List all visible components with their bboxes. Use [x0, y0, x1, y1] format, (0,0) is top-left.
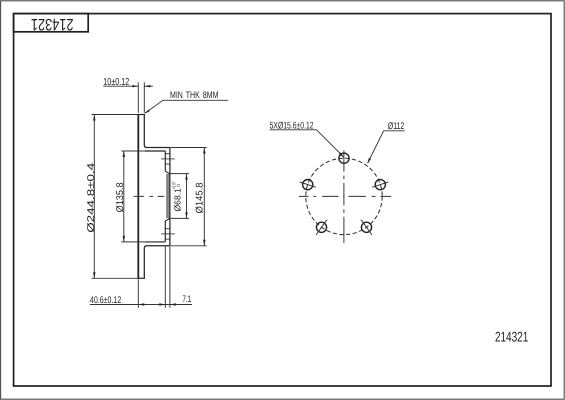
section view horizontal centerline	[134, 195, 165, 197]
svg-text:Ø68.1: Ø68.1	[173, 188, 183, 212]
dimension Ø135.8 extension lines	[121, 151, 145, 242]
flange inner face top segment	[164, 151, 166, 171]
title block box	[14, 14, 89, 32]
disc left face (outboard friction face, thick)	[137, 115, 139, 279]
svg-text:Ø145.8: Ø145.8	[195, 182, 206, 214]
bolt circle (dashed)	[306, 158, 382, 234]
leader 5XØ15.6±0.12 underline and diagonal	[270, 130, 344, 157]
hat inner surface bottom	[145, 241, 165, 243]
dimension Ø68.1 extension lines	[169, 174, 189, 219]
dimension text Ø135.8 (rotated)	[115, 182, 126, 213]
dimension Ø145.8 extension lines	[171, 148, 207, 246]
disc right face lower with fillet into hat outer surface	[144, 246, 170, 278]
dimension 10±0.12 dimension line	[103, 85, 153, 87]
bolt hole section top edge lines	[165, 154, 171, 164]
dimension 40.6 / 7.1 dimension line	[90, 304, 192, 306]
face view horizontal centerline	[299, 195, 391, 197]
svg-text:214321: 214321	[31, 15, 73, 33]
bolt hole upper left	[303, 180, 313, 190]
dimension text Ø145.8 (rotated)	[195, 182, 206, 214]
bolt hole upper left radial tick	[300, 182, 316, 187]
bolt hole section top centerline tick	[161, 158, 175, 160]
disc top face	[137, 114, 145, 116]
svg-text:5XØ15.6±0.12: 5XØ15.6±0.12	[270, 120, 314, 131]
bolt hole section bottom edge lines	[165, 229, 171, 239]
dimension Ø145.8 dimension line	[203, 148, 205, 246]
disc right face upper with fillet into hat outer surface	[144, 115, 170, 148]
face view vertical centerline	[343, 151, 345, 244]
leader 5XØ15.6±0.12 arrow	[339, 152, 344, 157]
svg-text:0: 0	[176, 184, 181, 187]
dimension Ø244.8±0.4 arrows	[93, 115, 96, 279]
dimension Ø135.8 arrows	[123, 151, 126, 242]
dimension Ø135.8 dimension line	[123, 151, 125, 242]
dimension Ø145.8 arrows	[203, 148, 206, 246]
dimension text Ø244.8±0.4 (rotated)	[86, 162, 97, 233]
flange outer face bottom segment	[169, 218, 171, 246]
bolt hole top	[339, 153, 349, 163]
dimension 40.6 / 7.1 arrows	[138, 303, 176, 305]
leader Ø112 underline and diagonal	[368, 131, 405, 163]
svg-text:214321: 214321	[495, 328, 528, 344]
dimension Ø244.8±0.4 extension lines	[92, 115, 138, 279]
svg-text:40.6±0.12: 40.6±0.12	[90, 295, 121, 306]
dimension text Ø68.1 +0.07/0 (rotated, with tolerance stack)	[171, 181, 182, 211]
flange outer face top segment	[169, 148, 171, 174]
dimension 10±0.12 arrows	[132, 85, 150, 87]
flange outer face mid segment (bore edge)	[169, 174, 171, 218]
bore section hatch strip	[167, 174, 171, 218]
bolt hole lower right	[361, 222, 371, 232]
dimension 10±0.12 extension lines	[138, 82, 144, 113]
flange inner face bottom segment	[164, 221, 166, 242]
bore chamfer bottom	[165, 218, 170, 221]
dimension Ø68.1 arrows	[185, 174, 188, 219]
leader MIN THK 8MM	[145, 100, 228, 113]
bolt hole lower left radial tick	[316, 220, 327, 235]
bolt hole section bottom centerline tick	[161, 233, 175, 235]
dimension 40.6 / 7.1 extension lines	[138, 247, 170, 308]
bolt hole lower right radial tick	[361, 220, 372, 235]
svg-text:Ø112: Ø112	[388, 121, 405, 132]
leader MIN THK arrow	[145, 110, 150, 114]
svg-text:10±0.12: 10±0.12	[103, 77, 129, 88]
bolt hole upper right	[375, 180, 385, 190]
leader Ø112 arrow	[367, 158, 371, 164]
bore hatch strip left edge	[166, 174, 168, 218]
dimension Ø244.8±0.4 dimension line	[93, 115, 95, 279]
svg-text:Ø135.8: Ø135.8	[115, 182, 126, 213]
svg-text:7.1: 7.1	[182, 294, 191, 305]
disc bottom face	[137, 277, 145, 279]
title block text 214321 (rotated 180)	[31, 15, 73, 33]
bolt hole lower left	[316, 222, 326, 232]
bolt hole upper right radial tick	[372, 182, 388, 187]
bore chamfer top	[165, 171, 170, 174]
svg-text:MIN THK 8MM: MIN THK 8MM	[170, 89, 219, 100]
svg-text:Ø244.8±0.4: Ø244.8±0.4	[86, 162, 97, 233]
dimension Ø68.1 dimension line	[186, 174, 188, 219]
hat inner surface top	[145, 150, 165, 152]
